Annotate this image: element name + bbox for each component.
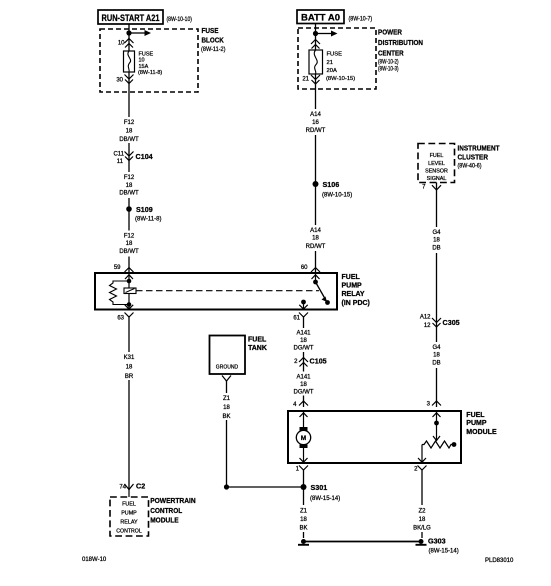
svg-text:A14: A14 [310, 112, 321, 118]
pin 59 chevrons [125, 268, 134, 279]
svg-text:Z1: Z1 [300, 509, 308, 515]
fuel tank title [248, 337, 267, 353]
fuse F10 15A [124, 51, 135, 72]
svg-text:15A: 15A [139, 64, 149, 70]
svg-text:PUMP: PUMP [466, 420, 487, 427]
relay actuation dashed line [136, 290, 319, 292]
connector C105 [294, 357, 327, 367]
svg-text:G4: G4 [432, 345, 441, 351]
svg-text:(8W-10-15): (8W-10-15) [326, 76, 355, 82]
ground link wire [304, 541, 420, 543]
svg-text:(8W-15-14): (8W-15-14) [429, 549, 459, 555]
svg-text:MODULE: MODULE [150, 516, 179, 525]
svg-text:PUMP: PUMP [121, 511, 137, 517]
svg-text:F12: F12 [124, 234, 135, 240]
svg-text:POWER: POWER [378, 27, 402, 36]
svg-text:S301: S301 [311, 483, 328, 492]
fuel level sensor feed wire [436, 411, 438, 441]
svg-text:GROUND: GROUND [216, 365, 238, 371]
fuel level sensor resistor [422, 441, 454, 448]
svg-text:(8W-11-2): (8W-11-2) [201, 47, 226, 53]
svg-text:BATT A0: BATT A0 [301, 13, 340, 23]
svg-text:63: 63 [117, 316, 124, 322]
svg-text:INSTRUMENT: INSTRUMENT [458, 144, 500, 153]
svg-text:018W-10: 018W-10 [82, 557, 107, 563]
sensor junction dot [434, 421, 439, 426]
svg-text:C105: C105 [310, 357, 327, 366]
ground symbol left [298, 539, 309, 545]
svg-text:DB: DB [432, 361, 440, 367]
fuse F21 20A [309, 50, 323, 74]
node RUN-START A21 [98, 10, 163, 24]
svg-text:18: 18 [433, 238, 440, 244]
svg-text:RUN-START A21: RUN-START A21 [102, 13, 160, 23]
svg-text:20A: 20A [327, 68, 337, 74]
svg-text:18: 18 [419, 517, 426, 523]
pin 1 chevrons [299, 466, 308, 471]
svg-text:BK: BK [222, 414, 230, 420]
svg-text:12: 12 [424, 323, 431, 329]
motor ground arrow [300, 458, 308, 462]
wire label F12 18 DB/WT (2) [117, 172, 141, 198]
instrument cluster enclosure [418, 144, 455, 183]
svg-text:A14: A14 [310, 228, 321, 234]
splice S109 [126, 205, 161, 223]
relay coil top junction dot [127, 279, 132, 284]
svg-text:11: 11 [117, 159, 124, 165]
svg-text:POWERTRAIN: POWERTRAIN [150, 496, 196, 505]
wire label A14 18 RD/WT [303, 225, 328, 251]
wire branch arrow PDC [316, 31, 338, 37]
svg-text:FUSE: FUSE [327, 52, 343, 58]
svg-text:18: 18 [126, 241, 133, 247]
svg-text:MODULE: MODULE [466, 429, 497, 436]
splice S301 [301, 483, 341, 502]
svg-text:18: 18 [126, 129, 133, 135]
svg-text:59: 59 [114, 265, 121, 271]
svg-text:A12: A12 [420, 315, 431, 321]
sensor return wire to pin 2 [421, 445, 423, 464]
svg-text:21: 21 [327, 60, 333, 66]
pin 7 chevron [432, 185, 441, 190]
wire pump pin 1 to S301 [303, 470, 305, 487]
svg-text:(8W-10-2): (8W-10-2) [378, 59, 399, 65]
fuse F21 value label [326, 52, 355, 83]
pin 3 chevrons [432, 401, 441, 417]
svg-text:(8W-11-8): (8W-11-8) [138, 70, 162, 76]
ground G303 [416, 539, 427, 545]
svg-text:18: 18 [126, 183, 133, 189]
connector C2 chevron [125, 484, 134, 490]
wire pump pin 2 to G303 [421, 470, 423, 538]
fuse F10 value label [138, 52, 162, 77]
wire label A14 16 RD/WT [303, 109, 328, 135]
wire A141 18 DG/WT relay pin 61 to pump pin 4 [303, 316, 305, 407]
relay switch arm [316, 282, 330, 305]
svg-text:30: 30 [116, 77, 123, 83]
svg-text:G4: G4 [432, 230, 441, 236]
svg-text:FUEL: FUEL [466, 412, 485, 419]
pin 61 chevrons [299, 305, 308, 317]
svg-text:S109: S109 [136, 205, 153, 214]
wire A14 16 RD/WT PDC to relay pin 60 [315, 74, 317, 273]
svg-text:RELAY: RELAY [342, 291, 365, 298]
svg-text:TANK: TANK [248, 345, 267, 352]
wire G4 18 DB cluster pin 7 to pump pin 3 [436, 183, 438, 408]
pin 63 chevrons [125, 305, 134, 317]
wire K31 18 BR relay to PCM C2 [128, 316, 130, 490]
ground G303 label [428, 537, 459, 555]
svg-text:16: 16 [312, 120, 319, 126]
splice S106 [313, 180, 353, 199]
wire label K31 18 BR [117, 352, 141, 380]
wire label F12 18 DB/WT (1) [117, 117, 141, 143]
relay internal wire 59-63 [128, 273, 130, 310]
svg-text:BK/LG: BK/LG [413, 526, 431, 532]
instrument cluster title [458, 144, 500, 170]
wire BATT A0 to fuse F21 [315, 24, 317, 51]
svg-text:G303: G303 [428, 537, 446, 546]
wire RUN-START A21 to fuse F10 [128, 24, 130, 51]
wire label Z1 18 BK (tank) [216, 393, 236, 420]
fuel pump module title [466, 412, 497, 436]
svg-text:(IN PDC): (IN PDC) [342, 300, 370, 307]
wire label G4 18 DB (1) [426, 227, 447, 253]
wire Z1 18 BK fuel tank to S301 [227, 381, 304, 487]
wire C2 into PCM [128, 490, 130, 498]
fuse terminal 30 chevrons [125, 75, 134, 84]
svg-text:(8W-10-15): (8W-10-15) [322, 193, 352, 199]
wire label Z1 18 BK [294, 505, 313, 532]
svg-text:10: 10 [118, 41, 125, 47]
svg-text:Z2: Z2 [418, 509, 426, 515]
svg-text:LEVEL: LEVEL [428, 161, 445, 167]
connector C305 [420, 315, 460, 330]
svg-text:CONTROL: CONTROL [116, 529, 142, 535]
svg-text:DG/WT: DG/WT [294, 390, 314, 396]
pin 60 chevrons [311, 268, 320, 279]
fuse terminal 10 chevrons [125, 39, 134, 48]
pump motor feed wire [303, 411, 305, 427]
svg-text:DB/WT: DB/WT [119, 249, 139, 255]
svg-text:(8W-40-6): (8W-40-6) [458, 164, 482, 170]
svg-text:61: 61 [293, 316, 300, 322]
relay output terminal 61 stub [301, 300, 306, 310]
pin 4 chevrons [299, 401, 308, 417]
svg-text:(8W-10-3): (8W-10-3) [378, 67, 399, 73]
svg-text:(8W-10-10): (8W-10-10) [167, 17, 193, 23]
svg-text:(8W-15-14): (8W-15-14) [310, 496, 340, 502]
wire F12 fuse block to relay pin 59 [128, 72, 130, 273]
svg-text:BLOCK: BLOCK [202, 36, 225, 45]
relay coil bottom junction dot [127, 302, 132, 307]
fuse terminal 21 chevrons [311, 75, 320, 84]
svg-text:A141: A141 [296, 331, 311, 337]
svg-text:60: 60 [301, 265, 308, 271]
svg-text:C305: C305 [443, 318, 460, 327]
svg-text:F12: F12 [124, 175, 135, 181]
powertrain control module title [150, 496, 196, 525]
fuel tank pin chevron [222, 376, 231, 382]
svg-text:M: M [301, 435, 306, 442]
svg-text:SIGNAL: SIGNAL [427, 176, 447, 182]
junction dot fuel tank ground branch [224, 484, 229, 489]
svg-text:RD/WT: RD/WT [306, 128, 326, 134]
relay K1 FUEL PUMP RELAY box [95, 273, 370, 310]
sensor wiper arrow [433, 436, 440, 441]
svg-text:DISTRIBUTION: DISTRIBUTION [378, 38, 423, 47]
svg-text:CENTER: CENTER [378, 49, 404, 58]
pin 2 chevrons [418, 458, 427, 470]
svg-text:DB/WT: DB/WT [119, 191, 139, 197]
svg-text:RELAY: RELAY [120, 520, 138, 526]
svg-text:PLD83010: PLD83010 [485, 558, 514, 564]
svg-text:C11: C11 [113, 152, 124, 158]
svg-text:(8W-10-7): (8W-10-7) [349, 17, 373, 23]
wire label Z2 18 BK/LG [410, 505, 434, 532]
svg-text:18: 18 [223, 405, 230, 411]
relay coil symbol [124, 288, 136, 294]
connector C104 [113, 152, 152, 166]
wire Z1 18 BK S301 to G303 [303, 487, 305, 538]
svg-text:21: 21 [302, 77, 309, 83]
motor M1 fuel pump [296, 427, 310, 448]
relay switch common contact [313, 273, 318, 284]
powertrain control module enclosure [110, 497, 149, 536]
wire label A141 18 DG/WT (2) [291, 372, 316, 396]
svg-text:F12: F12 [124, 120, 135, 126]
svg-text:18: 18 [300, 338, 307, 344]
fuel tank box [210, 336, 246, 375]
fuse block enclosure [100, 26, 226, 92]
fuel pump module box [288, 411, 461, 463]
svg-text:18: 18 [312, 236, 319, 242]
wire label G4 18 DB (2) [426, 342, 447, 368]
relay coil resistor zigzag [110, 281, 130, 305]
sensor resistor end dot [452, 442, 457, 447]
svg-text:18: 18 [126, 365, 133, 371]
wire label F12 18 DB/WT (3) [117, 231, 141, 257]
svg-text:BR: BR [125, 374, 134, 380]
svg-text:BK: BK [299, 526, 307, 532]
svg-text:CLUSTER: CLUSTER [458, 153, 489, 162]
svg-text:S106: S106 [323, 180, 340, 189]
svg-text:A141: A141 [296, 375, 311, 381]
svg-text:CONTROL: CONTROL [150, 506, 183, 515]
node BATT A0 [297, 10, 344, 24]
svg-text:DB: DB [432, 246, 440, 252]
svg-text:FUSE: FUSE [202, 26, 219, 35]
svg-text:18: 18 [300, 382, 307, 388]
svg-text:10: 10 [139, 58, 145, 64]
motor ground wire [303, 448, 305, 463]
junction dot fuse block feed [126, 30, 131, 35]
svg-text:FUEL: FUEL [430, 153, 444, 159]
svg-text:DB/WT: DB/WT [119, 137, 139, 143]
svg-text:(8W-11-8): (8W-11-8) [135, 217, 161, 223]
svg-text:FUEL: FUEL [342, 274, 361, 281]
svg-text:RD/WT: RD/WT [306, 244, 326, 250]
wire label A141 18 DG/WT (1) [291, 328, 316, 352]
power distribution center enclosure [298, 27, 423, 89]
svg-text:C104: C104 [136, 152, 153, 161]
svg-text:FUEL: FUEL [248, 337, 267, 344]
wire branch arrow fuse block [129, 30, 151, 36]
svg-text:SENSOR: SENSOR [425, 169, 448, 175]
svg-text:PUMP: PUMP [342, 283, 363, 290]
junction dot PDC feed [313, 31, 318, 36]
svg-text:DG/WT: DG/WT [294, 346, 314, 352]
fuse terminal chevrons PDC top [311, 40, 320, 49]
svg-text:Z1: Z1 [223, 396, 231, 402]
svg-text:18: 18 [300, 517, 307, 523]
svg-text:K31: K31 [124, 355, 135, 361]
svg-text:FUEL: FUEL [122, 502, 136, 508]
svg-text:C2: C2 [136, 482, 145, 491]
svg-text:18: 18 [433, 353, 440, 359]
